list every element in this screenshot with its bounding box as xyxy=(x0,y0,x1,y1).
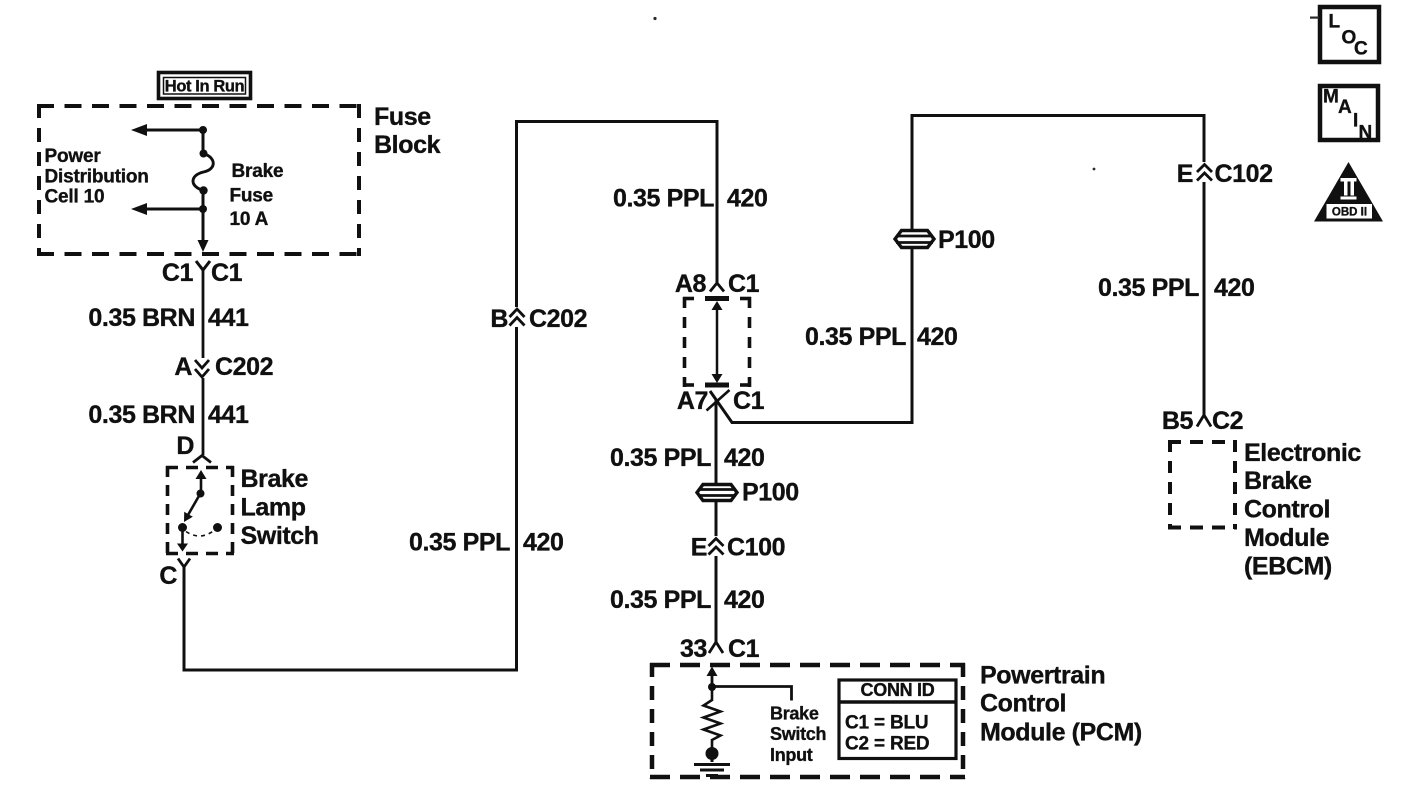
svg-text:33: 33 xyxy=(680,635,707,663)
connector C202 pin A xyxy=(174,353,273,381)
scan speck (left of LOC box) xyxy=(1310,17,1319,19)
svg-text:C102: C102 xyxy=(1215,160,1273,188)
svg-text:420: 420 xyxy=(1214,274,1255,302)
label Power Distribution Cell 10 xyxy=(45,146,149,207)
svg-text:Powertrain: Powertrain xyxy=(980,662,1105,690)
svg-text:Control: Control xyxy=(980,690,1066,718)
fuse block dashed box xyxy=(37,104,361,256)
svg-text:P100: P100 xyxy=(938,226,995,254)
svg-text:0.35 PPL: 0.35 PPL xyxy=(613,185,714,213)
wire 0.35 BRN 441 (C202 pin A to D) xyxy=(202,378,205,455)
svg-text:441: 441 xyxy=(208,304,249,332)
wire 0.35 PPL 420: C202 pin B to A8 (up, right, down) xyxy=(517,122,718,308)
scan speck (right of top wire) xyxy=(1093,168,1096,171)
svg-text:Switch: Switch xyxy=(770,724,826,744)
svg-text:C1 = BLU: C1 = BLU xyxy=(845,713,928,734)
label 0.35 PPL 420 (C100 to PCM) xyxy=(610,586,765,614)
svg-text:0.35 BRN: 0.35 BRN xyxy=(88,304,195,332)
svg-text:C1: C1 xyxy=(728,270,760,298)
svg-text:C1: C1 xyxy=(162,259,194,287)
svg-text:420: 420 xyxy=(724,586,765,614)
svg-text:Block: Block xyxy=(374,131,441,159)
node: PCM input junction xyxy=(708,683,716,691)
label 0.35 BRN 441 (second) xyxy=(88,401,249,429)
label LOC (map code box) xyxy=(1320,7,1379,62)
resistor R (brake switch input) xyxy=(704,687,721,748)
svg-text:(EBCM): (EBCM) xyxy=(1244,552,1332,580)
brake lamp switch dashed box xyxy=(166,466,234,555)
svg-text:Brake: Brake xyxy=(241,465,309,493)
svg-text:0.35 PPL: 0.35 PPL xyxy=(610,444,711,472)
fuse F1 Brake Fuse 10A (wavy symbol) xyxy=(193,150,213,195)
svg-text:420: 420 xyxy=(523,529,564,557)
ground (PCM internal) xyxy=(694,753,730,776)
splice P100 (right) xyxy=(895,231,934,248)
svg-text:Hot In Run: Hot In Run xyxy=(165,78,245,96)
svg-text:10 A: 10 A xyxy=(230,209,269,230)
svg-text:N: N xyxy=(1359,123,1373,144)
svg-text:441: 441 xyxy=(208,401,249,429)
svg-text:Input: Input xyxy=(770,745,813,765)
wire 0.35 PPL 420: switch to C202 pin B (down, right, up) xyxy=(184,327,517,670)
svg-text:Cell 10: Cell 10 xyxy=(45,186,105,207)
svg-text:Brake: Brake xyxy=(232,161,284,182)
svg-text:Electronic: Electronic xyxy=(1244,439,1361,467)
svg-text:C: C xyxy=(1354,39,1368,60)
connector C1 (fuse block) xyxy=(162,259,243,287)
connector C100 pin E xyxy=(691,534,785,562)
wire 0.35 PPL 420: C102 pin E down to B5 xyxy=(1203,182,1206,415)
wire 0.35 PPL 420: A7 down to C100 pin E xyxy=(715,400,718,536)
CONN ID table xyxy=(838,680,957,759)
svg-text:0.35 BRN: 0.35 BRN xyxy=(88,401,195,429)
symbol OBD II (triangle badge) xyxy=(1314,162,1383,222)
svg-text:I: I xyxy=(1353,111,1358,132)
label 0.35 BRN 441 xyxy=(88,304,249,332)
svg-text:A: A xyxy=(174,353,192,381)
connector A8/A7 mating arrow xyxy=(712,301,723,383)
svg-text:A: A xyxy=(1338,97,1352,118)
label Electronic Brake Control Module (EBCM) xyxy=(1244,439,1361,581)
label 0.35 PPL 420 (to right splice) xyxy=(805,323,958,351)
svg-text:0.35 PPL: 0.35 PPL xyxy=(805,323,906,351)
label 0.35 PPL 420 (lower left) xyxy=(409,529,564,557)
svg-text:Switch: Switch xyxy=(241,522,319,550)
switch: output arrow xyxy=(177,530,188,552)
label MAIN (map code box) xyxy=(1320,86,1378,144)
connector C2 pin B5 xyxy=(1162,407,1243,435)
svg-text:C2: C2 xyxy=(1212,407,1243,435)
svg-text:D: D xyxy=(176,432,194,460)
label Brake Switch Input xyxy=(770,704,826,765)
svg-text:B5: B5 xyxy=(1162,407,1194,435)
node: resistor to ground xyxy=(706,747,719,760)
svg-text:Distribution: Distribution xyxy=(45,166,149,187)
svg-text:C: C xyxy=(159,562,177,590)
svg-text:420: 420 xyxy=(727,185,768,213)
svg-text:C1: C1 xyxy=(211,259,243,287)
svg-text:Control: Control xyxy=(1244,496,1330,524)
svg-text:A8: A8 xyxy=(675,270,707,298)
svg-text:OBD II: OBD II xyxy=(1332,207,1367,219)
svg-text:E: E xyxy=(691,534,707,562)
label Brake Lamp Switch xyxy=(241,465,319,550)
label "Hot In Run" xyxy=(159,73,251,99)
svg-text:C1: C1 xyxy=(728,635,760,663)
wire 0.35 PPL 420: C100 pin E down to pin 33 xyxy=(715,556,718,643)
svg-text:Lamp: Lamp xyxy=(241,494,306,522)
label 0.35 PPL 420 (A7 to P100) xyxy=(610,444,765,472)
scan speck (top middle) xyxy=(653,17,656,20)
switch: contact nodes xyxy=(178,523,222,532)
svg-text:C2 = RED: C2 = RED xyxy=(845,734,929,755)
svg-text:P100: P100 xyxy=(742,479,799,507)
svg-text:A7: A7 xyxy=(677,387,708,415)
svg-text:C202: C202 xyxy=(215,353,273,381)
svg-text:M: M xyxy=(1323,87,1339,108)
PCM dashed box xyxy=(650,663,965,779)
label Brake Fuse 10 A xyxy=(230,161,284,230)
svg-text:E: E xyxy=(1177,160,1193,188)
wire: A7 branch to C102 pin E (diagonal, right, up, right, down) xyxy=(710,116,1204,423)
connector C1 pin A8 xyxy=(675,270,760,298)
svg-text:CONN ID: CONN ID xyxy=(861,680,935,700)
svg-text:0.35 PPL: 0.35 PPL xyxy=(1098,274,1199,302)
label 0.35 PPL 420 (top middle) xyxy=(613,185,768,213)
wire: fuse output arrow down xyxy=(198,240,209,252)
svg-text:Brake: Brake xyxy=(1244,467,1312,495)
svg-text:Module: Module xyxy=(1244,524,1330,552)
connector C202 pin B xyxy=(490,305,587,333)
svg-text:Module (PCM): Module (PCM) xyxy=(980,719,1142,747)
svg-text:C1: C1 xyxy=(733,387,765,415)
connector C1 pin A7 (X symbol) xyxy=(677,387,765,415)
svg-text:0.35 PPL: 0.35 PPL xyxy=(610,586,711,614)
wire 0.35 BRN 441 (C1 to C202 pin A) xyxy=(202,270,205,358)
label Powertrain Control Module (PCM) xyxy=(980,662,1142,747)
label Fuse Block xyxy=(374,103,441,159)
in-line connector box A8/A7 (dashed) xyxy=(683,297,751,387)
svg-text:Brake: Brake xyxy=(770,704,819,724)
switch: throw arc (dashed) xyxy=(186,531,214,537)
connector pin C (switch out) xyxy=(159,559,190,591)
switch: input arrow xyxy=(196,470,207,492)
EBCM dashed box xyxy=(1168,440,1237,529)
switch: pivot node xyxy=(197,490,205,498)
svg-text:Fuse: Fuse xyxy=(230,185,274,206)
label 0.35 PPL 420 (right) xyxy=(1098,274,1255,302)
svg-text:420: 420 xyxy=(724,444,765,472)
node: fuse output junction with arrow xyxy=(131,203,207,215)
wire: fuse block feed segments xyxy=(202,130,205,241)
switch: movable arm with arrowhead xyxy=(184,495,200,522)
svg-text:Power: Power xyxy=(45,146,102,167)
connector pin D (brake lamp switch) xyxy=(176,432,211,463)
svg-text:420: 420 xyxy=(917,323,958,351)
svg-text:Fuse: Fuse xyxy=(374,103,431,131)
connector C1 pin 33 xyxy=(680,635,760,663)
svg-text:B: B xyxy=(490,305,508,333)
svg-text:0.35 PPL: 0.35 PPL xyxy=(409,529,510,557)
svg-text:C202: C202 xyxy=(529,305,587,333)
connector C102 pin E xyxy=(1177,160,1273,188)
node: fuse input junction with arrow xyxy=(131,124,207,136)
wire: brake switch input tap xyxy=(712,687,792,701)
svg-text:L: L xyxy=(1329,12,1341,33)
wire: PCM input arrow xyxy=(707,667,718,688)
svg-text:C100: C100 xyxy=(727,534,785,562)
splice P100 (mid) xyxy=(697,485,737,501)
